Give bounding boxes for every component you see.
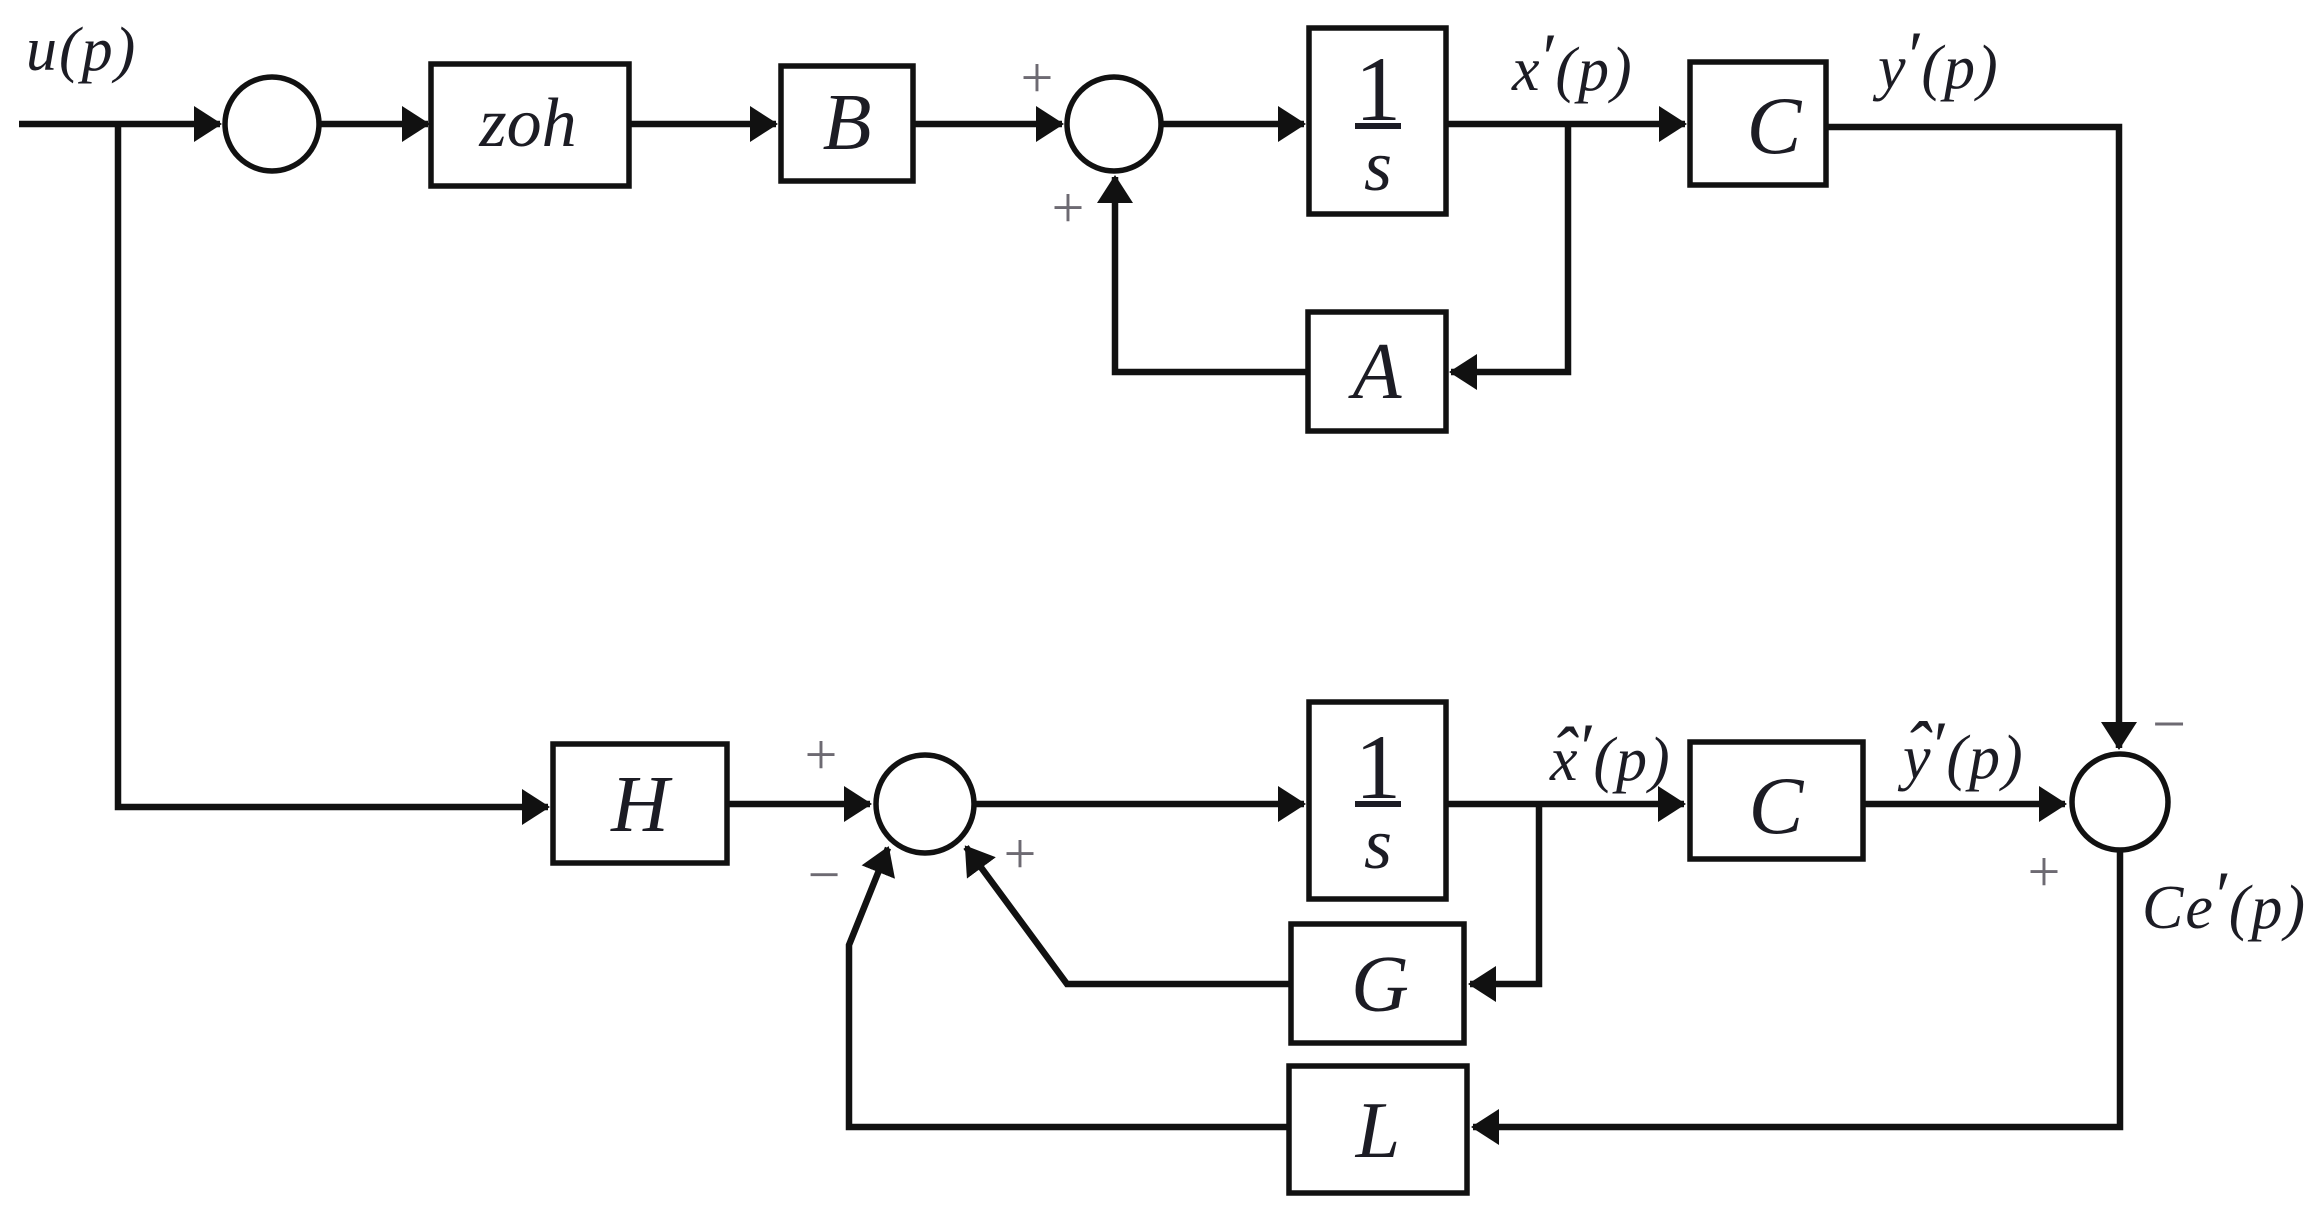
svg-text:G: G <box>1351 941 1409 1029</box>
svg-text:s: s <box>1364 126 1392 206</box>
wire S4 output Ce'(p) down to L <box>1473 850 2120 1127</box>
integrator block 1/s (upper) <box>1309 28 1446 214</box>
svg-text:+: + <box>1004 821 1037 886</box>
svg-text:ˆ: ˆ <box>1904 707 1933 791</box>
svg-text:ˆ: ˆ <box>1551 713 1579 795</box>
block H <box>553 744 727 863</box>
wire S1 to zoh <box>319 121 428 128</box>
svg-text:C: C <box>1747 80 1803 171</box>
svg-text:L: L <box>1355 1087 1401 1175</box>
block L <box>1289 1066 1467 1193</box>
block zoh <box>431 64 629 186</box>
summing junction S2 <box>1067 77 1161 171</box>
svg-text:+: + <box>1052 175 1085 240</box>
block A <box>1308 312 1446 431</box>
wire A to S2 bottom <box>1115 177 1308 372</box>
wire S2 to integrator 1 <box>1161 121 1304 128</box>
wire B to summing junction S2 <box>913 121 1062 128</box>
wire branch of u(p) down to lower path <box>118 124 548 807</box>
integrator block 1/s (lower) <box>1309 702 1446 899</box>
wire S3 to integrator 2 <box>974 801 1304 808</box>
svg-text:+: + <box>1021 45 1054 110</box>
block C (upper) <box>1690 62 1826 185</box>
svg-text:−: − <box>2152 691 2186 757</box>
wire branch xhat down to G <box>1470 804 1539 984</box>
summing junction S4 <box>2072 754 2168 850</box>
wire integrator 1 to C (upper) <box>1446 121 1685 128</box>
svg-text:s: s <box>1364 804 1392 884</box>
wire C output y'(p) down to summing junction S4 <box>1826 127 2119 748</box>
wire u(p) input to summing junction S1 <box>19 121 220 128</box>
wire integrator 2 to C (lower) <box>1446 801 1684 808</box>
summing junction S3 <box>876 755 974 853</box>
svg-text:zoh: zoh <box>478 85 576 162</box>
svg-text:H: H <box>610 761 673 849</box>
summing junction S1 <box>225 77 319 171</box>
svg-text:+: + <box>2028 839 2061 904</box>
wire L to S3 lower-left input <box>849 848 1289 1127</box>
wire G to S3 lower-right input <box>966 847 1291 984</box>
block C (lower) <box>1690 742 1863 859</box>
wire lower path H to summing junction S3 <box>727 801 870 808</box>
block G <box>1291 924 1464 1043</box>
wire C (lower) to summing junction S4 <box>1863 801 2065 808</box>
svg-text:u(p): u(p) <box>26 16 137 84</box>
wire zoh to B <box>629 121 776 128</box>
svg-text:A: A <box>1348 328 1403 416</box>
svg-text:+: + <box>805 722 838 787</box>
block B <box>781 66 913 181</box>
svg-text:C: C <box>1749 760 1805 851</box>
wire branch x'(p) down to A <box>1451 124 1568 372</box>
svg-text:B: B <box>823 79 872 167</box>
svg-text:−: − <box>808 842 841 907</box>
